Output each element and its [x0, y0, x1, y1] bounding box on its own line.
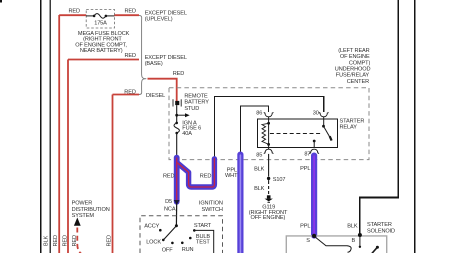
- svg-text:RED: RED: [124, 90, 136, 96]
- wire PPL highlighted jog (red core): [177, 158, 215, 202]
- svg-text:RED: RED: [125, 53, 137, 59]
- terminal B: [358, 233, 362, 237]
- label IGNITION SWITCH: [199, 201, 223, 213]
- svg-text:RED: RED: [125, 9, 137, 15]
- wire BLK solenoid B feed: [360, 0, 398, 235]
- svg-text:TEST: TEST: [196, 239, 211, 245]
- label STARTER SOLENOID: [367, 222, 395, 234]
- svg-text:B: B: [352, 238, 356, 244]
- junction arrow other circuits: [175, 114, 178, 117]
- wire black fuse down to D5: [176, 133, 178, 159]
- relay switch blade: [322, 125, 325, 128]
- svg-text:BLK: BLK: [254, 186, 265, 192]
- svg-text:NEAR BATTERY): NEAR BATTERY): [80, 48, 123, 54]
- fuse IGN A: [175, 122, 178, 125]
- contact START: [193, 229, 196, 232]
- fuse 175A element: [86, 15, 94, 17]
- svg-text:POWER: POWER: [72, 201, 93, 207]
- label EXCEPT DIESEL (BASE): [145, 55, 187, 67]
- brace branch bracket: [139, 15, 146, 94]
- wire black right edge vertical: [414, 0, 416, 253]
- svg-text:NCA: NCA: [164, 207, 176, 213]
- svg-text:S107: S107: [273, 177, 286, 183]
- svg-text:OFF ENGINE): OFF ENGINE): [251, 215, 286, 221]
- remote battery stud: [175, 101, 179, 105]
- contact RUN: [181, 242, 184, 245]
- relay actuator dashed: [270, 133, 322, 135]
- wire PPL highlighted left vertical (red core): [174, 158, 180, 202]
- svg-text:CENTER: CENTER: [347, 79, 369, 85]
- solenoid S internal wire: [315, 237, 352, 253]
- svg-text:(UPLEVEL): (UPLEVEL): [145, 16, 173, 22]
- wire 86 to PPL/WHT: [240, 106, 268, 253]
- svg-text:DISTRIBUTION: DISTRIBUTION: [72, 207, 110, 213]
- wire RED dashed to power distribution: [77, 228, 81, 253]
- label PPL/WHT: [225, 167, 238, 179]
- wire RED dark-gray vertical: [49, 0, 51, 253]
- svg-text:RED: RED: [173, 71, 185, 77]
- splice S107: [267, 177, 270, 180]
- svg-text:RED: RED: [163, 174, 175, 180]
- svg-text:IGNITION: IGNITION: [199, 201, 223, 207]
- svg-text:RED: RED: [200, 174, 212, 180]
- wire PPL/WHT highlighted: [237, 155, 243, 253]
- label IGN A FUSE 6 40A: [182, 120, 201, 137]
- terminal 86: [264, 112, 273, 117]
- connector D5 marker: [174, 200, 180, 205]
- terminal 87: [310, 149, 319, 154]
- svg-text:S: S: [306, 238, 310, 244]
- svg-text:FUSE/RELAY: FUSE/RELAY: [336, 73, 370, 79]
- wire BLK 85 to S107: [268, 154, 270, 177]
- label MEGA FUSE BLOCK: [75, 31, 129, 54]
- relay box: [258, 119, 338, 148]
- relay contact 87: [313, 140, 316, 143]
- wire RED diesel branch: [113, 94, 140, 96]
- corner artifact: [0, 0, 2, 3]
- svg-text:SWITCH: SWITCH: [201, 207, 222, 213]
- svg-text:86: 86: [256, 110, 262, 116]
- underhood fuse/relay center dashed box: [169, 88, 369, 160]
- ignition switch dashed box: [140, 216, 223, 253]
- svg-text:BATTERY: BATTERY: [184, 100, 209, 106]
- contact OFF: [171, 242, 174, 245]
- contact LOCK: [162, 239, 165, 242]
- terminal S: [312, 234, 316, 238]
- arrow power distribution: [74, 218, 81, 226]
- wire RED top right of fuse: [115, 14, 140, 16]
- svg-text:175A: 175A: [94, 21, 107, 27]
- svg-text:SYSTEM: SYSTEM: [72, 213, 95, 219]
- svg-text:COMPT): COMPT): [349, 60, 371, 66]
- wire RED feed to stud: [148, 79, 177, 101]
- label G119 location: [249, 205, 288, 222]
- svg-text:40A: 40A: [182, 131, 192, 137]
- ground G119: [267, 195, 271, 198]
- wire black D5 to ignition switch: [175, 202, 177, 226]
- relay coil: [267, 122, 270, 125]
- svg-text:85: 85: [256, 152, 262, 158]
- terminal 85: [268, 148, 270, 150]
- wire black stud to fuse: [176, 105, 178, 123]
- wire BLK S107 to ground: [268, 180, 270, 184]
- svg-text:WHT: WHT: [225, 173, 238, 179]
- svg-text:OFF: OFF: [162, 248, 174, 253]
- svg-text:D5: D5: [165, 199, 172, 205]
- wire 30 to D5 jog: [214, 96, 323, 158]
- svg-text:(LEFT REAR: (LEFT REAR: [338, 48, 369, 54]
- bulb test box: [194, 230, 213, 253]
- wire RED top uplevel branch: [59, 14, 86, 16]
- terminal 30: [319, 112, 328, 117]
- svg-text:BLK: BLK: [254, 166, 265, 172]
- starter solenoid box: [286, 236, 386, 253]
- svg-text:STARTER: STARTER: [367, 222, 392, 228]
- svg-text:REMOTE: REMOTE: [184, 93, 208, 99]
- label STARTER RELAY: [340, 118, 365, 130]
- svg-text:PPL: PPL: [300, 166, 310, 172]
- solenoid blade contact: [376, 246, 379, 249]
- svg-text:87: 87: [304, 152, 310, 158]
- wire RED vertical 1: [58, 15, 60, 253]
- label underhood center: [335, 48, 371, 85]
- svg-text:ACCY: ACCY: [144, 224, 159, 230]
- svg-text:START: START: [194, 223, 212, 229]
- svg-text:UNDERHOOD: UNDERHOOD: [335, 67, 371, 73]
- svg-text:BLK: BLK: [347, 224, 358, 230]
- svg-text:STUD: STUD: [184, 106, 199, 112]
- contact BULB TEST: [189, 237, 192, 240]
- svg-text:RED: RED: [107, 235, 113, 247]
- solenoid B internal contact: [359, 237, 361, 247]
- wire RED vertical diesel feed: [112, 95, 114, 253]
- svg-text:RUN: RUN: [182, 247, 194, 253]
- label POWER DISTRIBUTION SYSTEM: [72, 201, 110, 220]
- svg-text:SOLENOID: SOLENOID: [367, 228, 395, 234]
- wire BLK left vertical: [40, 0, 42, 253]
- wire RED vertical 2: [67, 60, 69, 253]
- svg-text:BLK: BLK: [44, 235, 50, 246]
- svg-text:30: 30: [313, 110, 319, 116]
- svg-text:RELAY: RELAY: [340, 124, 358, 130]
- svg-text:(BASE): (BASE): [145, 61, 163, 67]
- mega fuse dashed box: [86, 10, 114, 29]
- wire RED base branch: [68, 59, 139, 61]
- svg-text:PPL: PPL: [300, 224, 310, 230]
- ignition switch wiper: [175, 224, 178, 227]
- svg-text:RED: RED: [53, 235, 59, 247]
- contact ACCY: [159, 229, 162, 232]
- svg-text:LOCK: LOCK: [146, 240, 161, 246]
- label EXCEPT DIESEL (UPLEVEL): [145, 10, 187, 22]
- svg-text:RED: RED: [69, 9, 81, 15]
- wire 87 stub: [313, 154, 315, 157]
- wire PPL starter solenoid: [311, 156, 317, 236]
- label REMOTE BATTERY STUD: [184, 93, 209, 112]
- svg-text:OF ENGINE: OF ENGINE: [340, 54, 370, 60]
- svg-text:DIESEL: DIESEL: [146, 93, 165, 99]
